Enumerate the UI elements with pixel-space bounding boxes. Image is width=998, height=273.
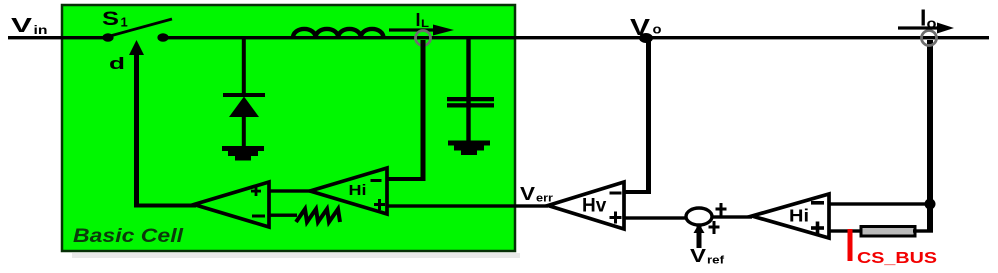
inductor L (293, 29, 383, 38)
minus sign (outer Hi) (811, 201, 824, 205)
wire shunt to Io branch (913, 229, 933, 232)
arrow Io (898, 23, 954, 34)
plus sign (summing lower) (709, 221, 720, 234)
plus sign (inner Hi) (374, 199, 385, 210)
wire main bus right segment (158, 36, 989, 39)
label Verr (520, 184, 554, 205)
resistor shunt (861, 227, 915, 237)
wire outer Hi plus input to shunt (829, 229, 863, 232)
label Vo (630, 14, 662, 40)
plus sign (summing upper) (716, 203, 727, 216)
svg-text:o: o (653, 23, 662, 37)
Basic Cell block (62, 5, 515, 251)
svg-text:Hi: Hi (349, 183, 367, 199)
wire d feedback (comparator output to switch, with up arrow) (129, 40, 196, 208)
wire summing junction to Hv plus input (624, 216, 687, 219)
op-amp Hi (outer current loop) (752, 194, 829, 238)
junction sense node dot (925, 199, 936, 210)
svg-text:CS_BUS: CS_BUS (857, 250, 937, 267)
svg-text:Hv: Hv (582, 196, 607, 217)
node Io sense circle (922, 31, 937, 46)
ground (diode) (222, 146, 264, 161)
svg-text:in: in (34, 25, 48, 37)
label IL (416, 10, 430, 30)
svg-text:I: I (416, 10, 421, 30)
svg-text:Basic Cell: Basic Cell (73, 226, 184, 247)
summing junction (686, 208, 712, 225)
wire inner Hi output to comparator (269, 189, 310, 192)
minus sign (comparator inverting) (252, 215, 265, 218)
label Io (920, 5, 937, 32)
switch S1 (102, 19, 172, 42)
svg-text:ref: ref (707, 255, 724, 267)
svg-text:V: V (11, 15, 33, 37)
svg-text:V: V (520, 184, 535, 204)
label S1 (102, 9, 128, 30)
op-amp PWM comparator (194, 182, 269, 227)
wire Vref (697, 226, 702, 248)
svg-text:1: 1 (121, 15, 128, 30)
wire Verr (Hv output to inner Hi plus input) (387, 204, 548, 207)
wire CS_BUS tap (red) (848, 229, 853, 261)
node IL sense circle (416, 31, 431, 46)
wire diode branch (242, 39, 246, 95)
op-amp Hi (inner current loop) (310, 168, 387, 214)
minus sign (inner Hi) (371, 179, 382, 182)
wire inductor-current sense (down to inner Hi minus input) (387, 40, 426, 181)
wire outer Hi inverting input to sense node (829, 202, 930, 205)
plus sign (comparator non-inverting) (251, 186, 261, 196)
minus sign (Hv) (610, 192, 622, 195)
sawtooth ramp symbol (296, 209, 340, 222)
svg-text:Hi: Hi (789, 206, 809, 226)
wire right Hi output to summing junction (712, 215, 752, 218)
wire Io branch vertical (927, 40, 933, 232)
plus sign (outer Hi) (811, 222, 824, 235)
svg-text:V: V (690, 246, 706, 266)
arrow IL (389, 25, 454, 36)
wire capacitor branch (466, 39, 470, 99)
wire main bus left segment (8, 36, 113, 39)
op-amp Hv (voltage loop) (548, 182, 624, 229)
plus sign (Hv) (610, 212, 622, 224)
wire comparator inverting input (269, 214, 297, 217)
node Vo (639, 33, 653, 43)
capacitor C (447, 97, 494, 142)
label Vref (690, 246, 724, 267)
svg-text:L: L (421, 18, 429, 30)
ground (capacitor) (448, 141, 490, 156)
diode D (223, 93, 265, 147)
label Vin (11, 15, 48, 37)
wire Vo to Hv inverting input (624, 40, 651, 194)
svg-text:d: d (109, 54, 125, 73)
svg-text:S: S (102, 9, 119, 30)
Basic Cell block shadow (72, 253, 520, 258)
